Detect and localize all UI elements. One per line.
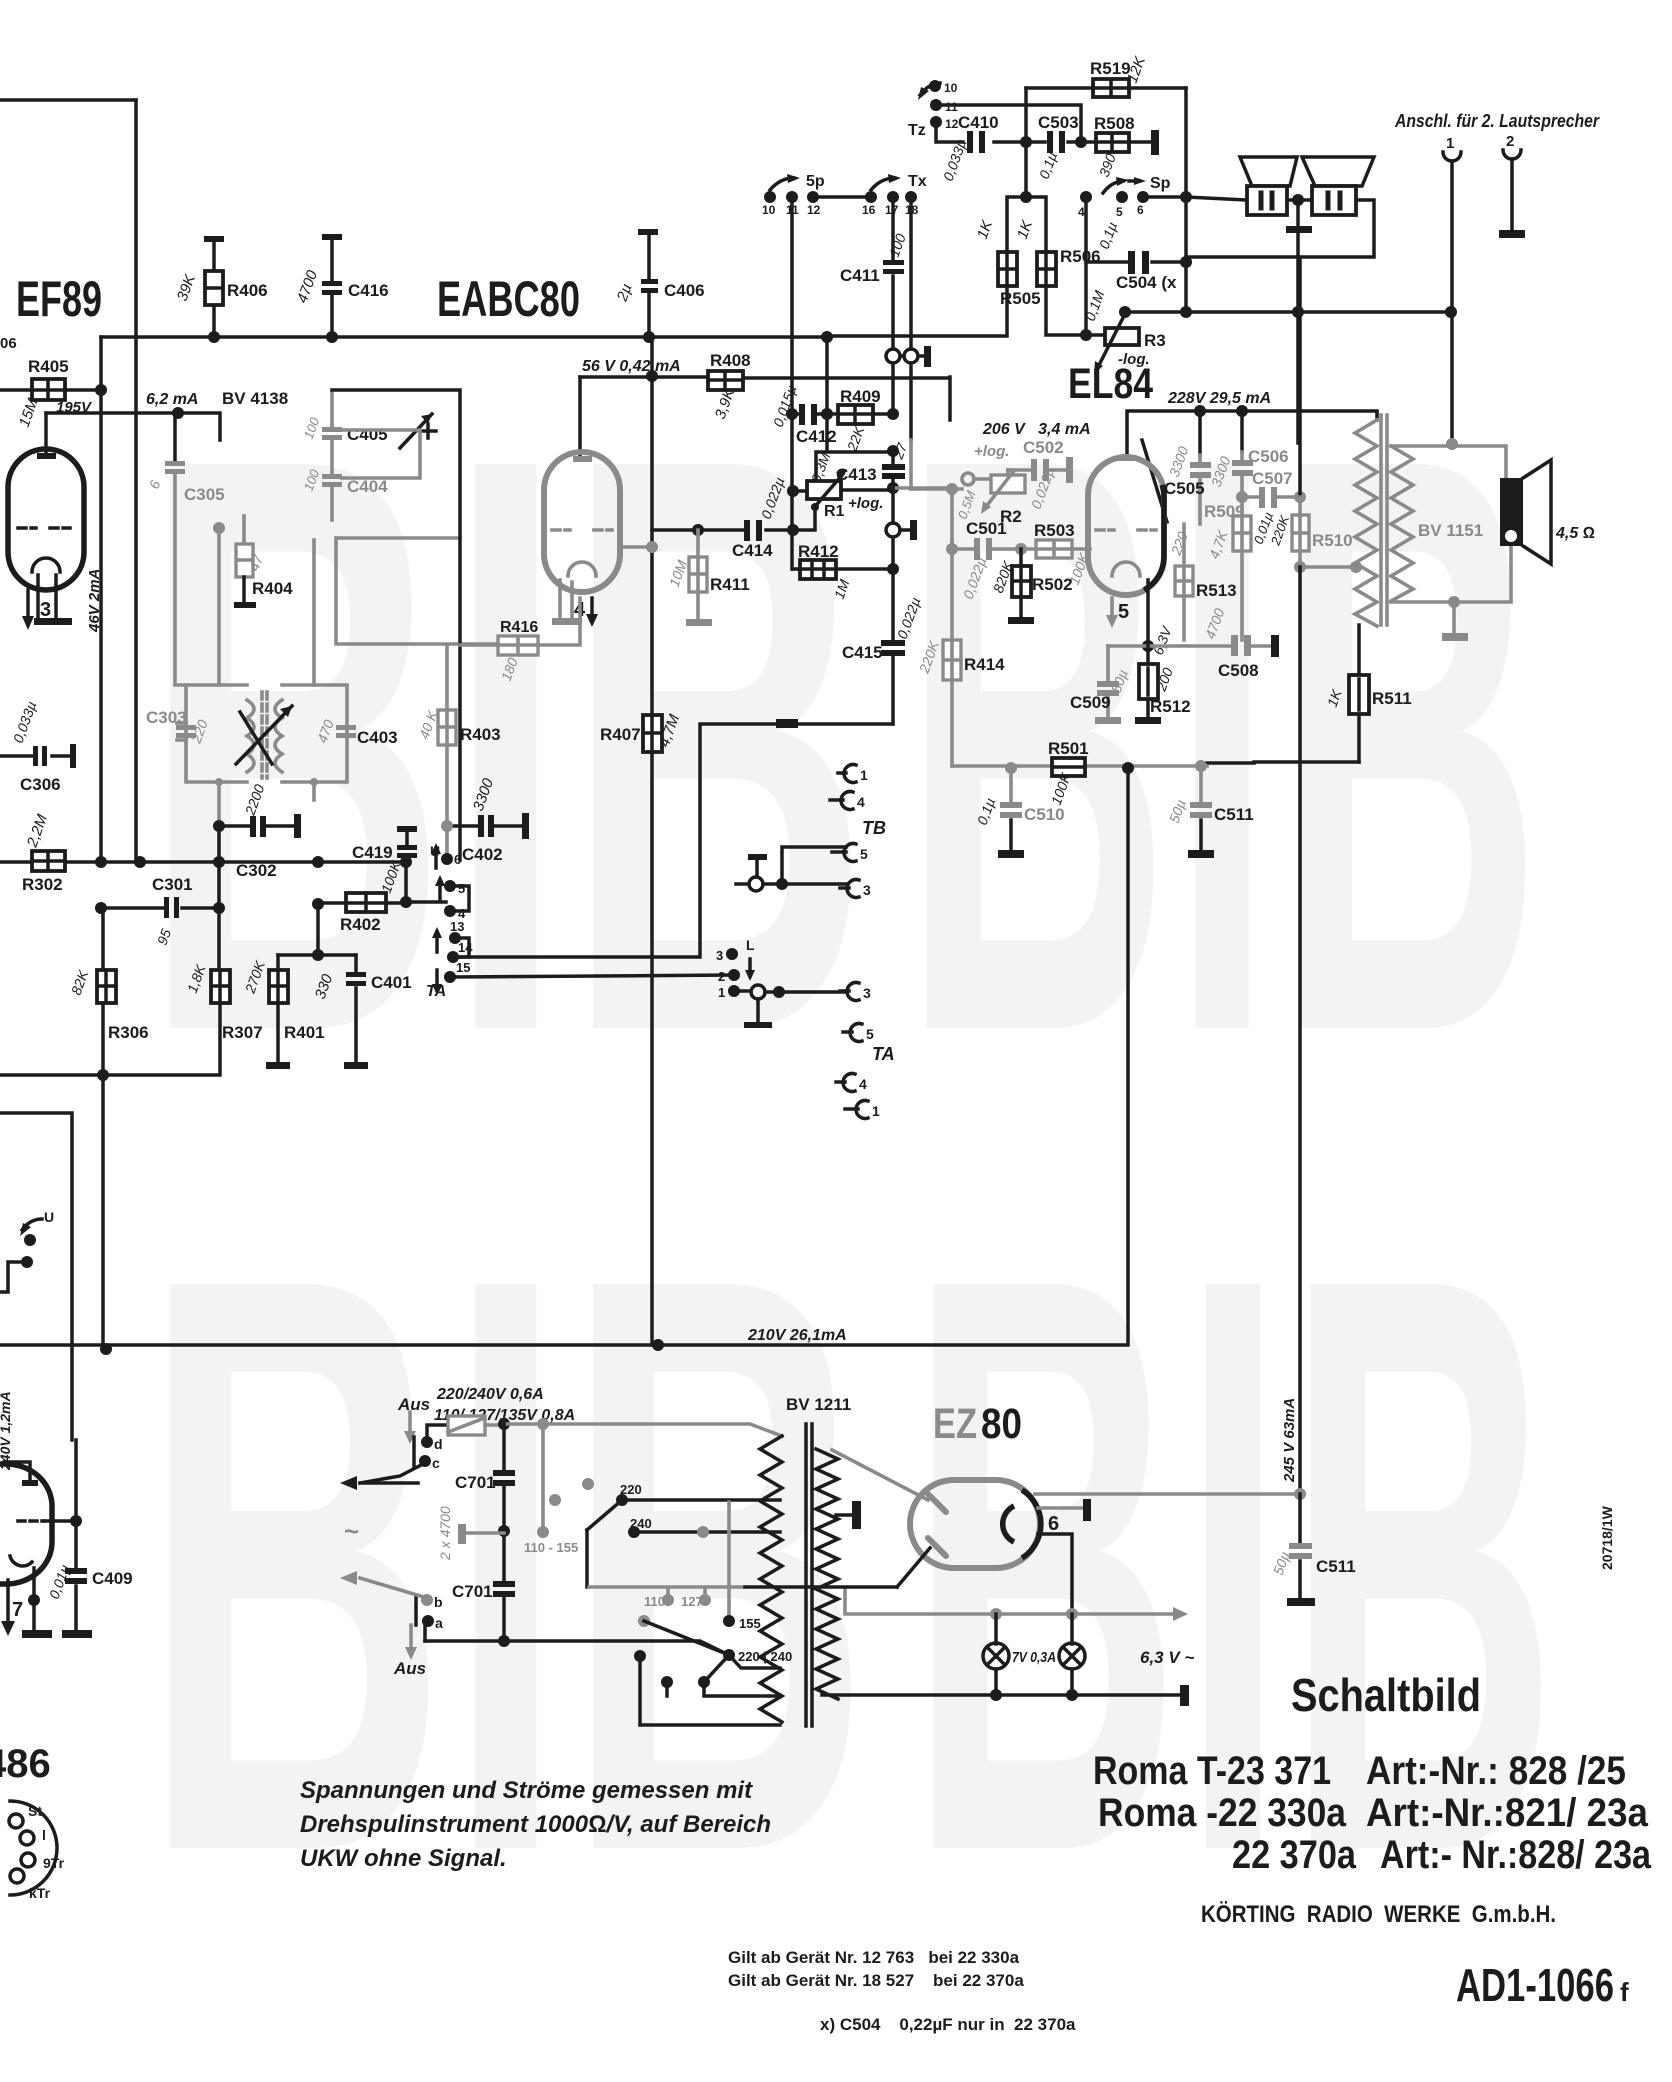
- transformer BV1151 primary winding: [1355, 420, 1377, 626]
- ground EABC80 cathode gray: [552, 618, 582, 625]
- svg-text:80: 80: [981, 1400, 1022, 1448]
- capacitor C503: [1026, 140, 1081, 144]
- svg-text:BIB: BIB: [142, 286, 870, 1202]
- svg-text:5: 5: [1116, 205, 1123, 219]
- svg-text:15: 15: [456, 960, 470, 975]
- svg-text:R302: R302: [22, 875, 63, 894]
- terminal C4 TA: [836, 1080, 845, 1084]
- svg-text:R307: R307: [222, 1023, 263, 1042]
- svg-text:C701: C701: [452, 1582, 493, 1601]
- svg-text:110 - 155: 110 - 155: [524, 1540, 578, 1555]
- wire bus drop to R405 node: [99, 337, 103, 390]
- switch mains b/a: [421, 1594, 433, 1606]
- node 11: [786, 191, 798, 203]
- svg-text:C503: C503: [1038, 113, 1079, 132]
- potentiometer R2 gray: [962, 473, 974, 485]
- svg-text:R509: R509: [1204, 502, 1245, 521]
- svg-text:EL84: EL84: [1068, 360, 1153, 408]
- node 10: [764, 191, 776, 203]
- wire C405 to trimmer gray: [342, 430, 420, 478]
- svg-text:EABC80: EABC80: [437, 271, 580, 327]
- node 12: [807, 191, 819, 203]
- capacitor C504: [1086, 260, 1186, 264]
- svg-text:C502: C502: [1023, 438, 1064, 457]
- svg-text:Roma -22 330a: Roma -22 330a: [1098, 1791, 1347, 1835]
- capacitor C406: [638, 229, 658, 235]
- svg-text:Gilt ab Gerät Nr. 12 763 bei: Gilt ab Gerät Nr. 12 763 bei 22 330a: [728, 1948, 1020, 1967]
- EZ80 heater stub right: [1038, 1506, 1083, 1510]
- svg-text:C510: C510: [1024, 805, 1065, 824]
- svg-text:3: 3: [863, 985, 871, 1001]
- svg-text:486: 486: [0, 1742, 51, 1786]
- resistor R306: [101, 908, 105, 970]
- svg-text:6,2 mA: 6,2 mA: [146, 391, 198, 408]
- capacitor C403 gray: [336, 725, 356, 730]
- svg-text:1: 1: [860, 767, 868, 783]
- svg-text:6: 6: [1137, 203, 1144, 217]
- svg-text:C501: C501: [966, 519, 1007, 538]
- wire TB C2 row: [798, 722, 893, 726]
- selector tap 110: [662, 1594, 674, 1606]
- svg-text:12: 12: [807, 203, 821, 217]
- terminator 6,3V bus: [1180, 1685, 1189, 1706]
- ground C511 upper: [1188, 850, 1214, 858]
- svg-text:14: 14: [458, 940, 473, 955]
- svg-text:C511: C511: [1316, 1557, 1356, 1576]
- resistor R402: [346, 893, 386, 912]
- capacitor C409: [74, 1440, 78, 1630]
- svg-text:C411: C411: [840, 266, 880, 285]
- IF transformer BV4138 left loop: [186, 685, 247, 782]
- svg-text:22 370a: 22 370a: [1232, 1833, 1357, 1877]
- node R405/bus: [95, 384, 107, 396]
- svg-text:l: l: [42, 1827, 46, 1843]
- wire tap rows to winding: [667, 1682, 780, 1696]
- resistor R412: [800, 560, 836, 579]
- svg-text:C509: C509: [1070, 693, 1111, 712]
- speaker internal left: [1240, 157, 1297, 186]
- terminal C5 TA: [843, 1030, 852, 1034]
- IF transformer BV4138 right loop: [282, 685, 347, 782]
- resistor R506: [1037, 252, 1056, 286]
- capacitor C302: [219, 824, 295, 828]
- wire contact 15 to L2: [450, 975, 734, 977]
- resistor R509 gray: [1233, 516, 1251, 551]
- wire TB feed row y884: [736, 882, 846, 886]
- svg-text:7: 7: [12, 1599, 23, 1621]
- svg-text:Art:-Nr.: 828 /25: Art:-Nr.: 828 /25: [1366, 1749, 1626, 1793]
- svg-text:R412: R412: [798, 542, 839, 561]
- resistor R411 gray: [696, 530, 700, 619]
- ground tube7: [22, 1630, 52, 1638]
- svg-text:13: 13: [450, 919, 464, 934]
- wire EZ80 cathode B+: [1035, 1492, 1300, 1496]
- switch contacts 13/14/15 TA: [435, 932, 439, 952]
- capacitor C501 gray: [946, 543, 958, 555]
- wire selector 110-155 gray: [541, 1424, 545, 1532]
- wire b to AC arrow gray: [360, 1578, 427, 1598]
- svg-text:240V 1,2mA: 240V 1,2mA: [0, 1391, 13, 1471]
- resistor R511: [1357, 625, 1361, 762]
- svg-text:C406: C406: [664, 281, 705, 300]
- svg-text:~: ~: [344, 1516, 359, 1546]
- svg-text:4: 4: [857, 794, 865, 810]
- svg-text:5: 5: [860, 846, 868, 862]
- ground R411 gray: [686, 619, 712, 626]
- svg-text:56 V 0,42 mA: 56 V 0,42 mA: [582, 358, 681, 375]
- svg-text:C511: C511: [1214, 805, 1254, 824]
- feedthrough L1: [751, 985, 765, 999]
- wire node11 vertical: [790, 197, 794, 414]
- capacitor C405 gray: [330, 392, 334, 474]
- terminator above feedthrough: [748, 854, 767, 860]
- wire secondary top gray: [1391, 446, 1506, 478]
- terminal C5 TB: [832, 850, 846, 854]
- svg-text:KÖRTING RADIO WERKE G.m.b.H: KÖRTING RADIO WERKE G.m.b.H.: [1201, 1901, 1556, 1928]
- capacitor C414: [744, 520, 750, 541]
- svg-text:b: b: [434, 1594, 443, 1610]
- svg-text:4: 4: [1078, 205, 1085, 219]
- selector gray feed row: [589, 1587, 745, 1596]
- svg-text:R501: R501: [1048, 739, 1089, 758]
- wire R510 to primary gray: [1300, 551, 1356, 567]
- ground speakers: [1296, 200, 1300, 443]
- svg-text:11: 11: [945, 100, 958, 114]
- wire node4 down: [1084, 197, 1088, 335]
- tube EL84: [1088, 457, 1164, 595]
- ground R401: [276, 1003, 280, 1062]
- wire right speaker loop: [1186, 200, 1374, 257]
- terminator C508: [1271, 635, 1279, 657]
- resistor R510: [1298, 257, 1302, 497]
- ground C509 gray: [1095, 717, 1121, 724]
- svg-text:C506: C506: [1248, 447, 1289, 466]
- svg-text:16: 16: [862, 203, 876, 217]
- svg-text:R407: R407: [600, 725, 641, 744]
- wire C302 to grid bus: [217, 826, 221, 970]
- svg-text:5p: 5p: [806, 173, 825, 190]
- coil BV4138 primary: [247, 700, 254, 772]
- transformer BV1151 secondary winding: [1391, 446, 1413, 601]
- terminator of feedthroughs: [900, 354, 924, 358]
- svg-text:12: 12: [945, 117, 959, 131]
- svg-text:1: 1: [718, 985, 725, 1000]
- capacitor C508 gray: [1231, 635, 1238, 656]
- wire EABC80 grid cap: [578, 377, 582, 455]
- svg-text:C419: C419: [352, 843, 393, 862]
- wire y847 branch: [782, 847, 846, 884]
- svg-text:C416: C416: [348, 281, 389, 300]
- resistor R307: [211, 970, 230, 1003]
- wire EZ80 lower diagonal: [897, 1548, 930, 1587]
- svg-text:1: 1: [872, 1103, 880, 1119]
- svg-text:R402: R402: [340, 915, 381, 934]
- wire R505 bottom to bus: [828, 286, 1007, 336]
- svg-text:220/240V 0,6A: 220/240V 0,6A: [436, 1386, 544, 1403]
- svg-text:C301: C301: [152, 875, 193, 894]
- svg-text:R404: R404: [252, 579, 293, 598]
- svg-text:R512: R512: [1150, 697, 1191, 716]
- svg-text:+log.: +log.: [848, 495, 883, 512]
- svg-text:R414: R414: [964, 655, 1005, 674]
- node 16: [865, 191, 877, 203]
- capacitor C507 gray: [1236, 491, 1248, 503]
- switch contacts 5/4: [438, 880, 442, 900]
- svg-text:R508: R508: [1094, 114, 1135, 133]
- svg-text:3: 3: [863, 882, 871, 898]
- svg-text:EZ: EZ: [933, 1400, 977, 1448]
- switch U mid-left: [22, 1219, 42, 1230]
- wire 195V anode row: [46, 413, 220, 440]
- wire left box upper: [0, 1113, 72, 1440]
- feedthrough x893 lower: [886, 523, 900, 537]
- wire mains to transformer gray: [504, 1424, 782, 1436]
- wire EZ80 anode diagonal gray: [832, 1450, 928, 1500]
- wire node12 to Tz row: [813, 195, 871, 199]
- svg-text:7V 0,3A: 7V 0,3A: [1012, 1649, 1056, 1666]
- svg-text:C507: C507: [1252, 469, 1293, 488]
- svg-text:20718/1W: 20718/1W: [1599, 1505, 1615, 1570]
- ground C401: [344, 1062, 368, 1069]
- svg-text:U: U: [44, 1209, 54, 1225]
- switch Tz arrow: [871, 178, 895, 190]
- resistor R512: [1146, 646, 1150, 717]
- svg-text:TB: TB: [862, 818, 886, 838]
- svg-text:C508: C508: [1218, 661, 1259, 680]
- svg-text:Tz: Tz: [908, 122, 926, 139]
- svg-text:228V 29,5 mA: 228V 29,5 mA: [1167, 390, 1271, 407]
- wire B+ vertical to 210V rail: [103, 768, 1128, 1345]
- ground EF89 cathode: [34, 618, 72, 625]
- wire secondary bottom gray: [1391, 546, 1511, 602]
- capacitor C410: [936, 122, 1026, 142]
- svg-text:+log.: +log.: [974, 443, 1009, 460]
- resistor R505: [998, 252, 1017, 286]
- resistor R401: [276, 955, 280, 970]
- svg-text:127: 127: [681, 1594, 703, 1609]
- wire R401/C401 loop: [278, 904, 356, 955]
- resistor R407: [643, 715, 662, 752]
- svg-text:C404: C404: [347, 477, 388, 496]
- terminal C3 TA: [840, 989, 849, 993]
- svg-text:R403: R403: [460, 725, 501, 744]
- ground R512: [1135, 717, 1161, 724]
- capacitor C306: [0, 754, 72, 758]
- tube EF89 triode section: [8, 449, 84, 590]
- node 6,2mA: [172, 407, 184, 419]
- wire anode vertical EABC80 to 210V: [650, 337, 654, 1345]
- lamp 2: [1070, 1614, 1074, 1644]
- svg-text:2: 2: [718, 969, 725, 984]
- resistor R519: [1026, 86, 1186, 90]
- wire to 210V rail: [101, 1075, 105, 1349]
- capacitor C305 gray: [173, 413, 177, 461]
- terminator R508: [1151, 130, 1159, 155]
- svg-text:6,3 V ~: 6,3 V ~: [1140, 1648, 1194, 1667]
- capacitor C511 upper: [1195, 760, 1207, 772]
- svg-text:C409: C409: [92, 1569, 133, 1588]
- svg-text:5: 5: [1118, 601, 1129, 623]
- node 17: [887, 191, 899, 203]
- resistor R502: [1019, 549, 1023, 617]
- wire c to AC arrow: [360, 1463, 425, 1483]
- svg-text:3: 3: [716, 948, 723, 963]
- resistor R414 gray: [950, 489, 954, 766]
- svg-text:R503: R503: [1034, 521, 1075, 540]
- wire bus end vertical x827: [825, 337, 829, 451]
- switch Tz2 contacts 10/11/12: [920, 83, 940, 95]
- wire y530 row: [652, 528, 793, 532]
- wire R519 right leg: [1184, 88, 1188, 312]
- svg-text:R409: R409: [840, 387, 881, 406]
- svg-text:R416: R416: [500, 619, 538, 636]
- capacitor C415: [891, 569, 895, 724]
- svg-text:1: 1: [1446, 135, 1454, 152]
- wire BV4138 bottoms gray: [215, 778, 223, 786]
- wire R1 top row: [816, 452, 893, 481]
- capacitor C401: [354, 955, 358, 1062]
- resistor R508: [1096, 133, 1129, 152]
- wire R403 bottom to contact6: [445, 826, 449, 852]
- ground R404: [234, 602, 256, 608]
- svg-text:C401: C401: [371, 973, 412, 992]
- wire EZ80 pin6 branch: [1038, 1534, 1072, 1614]
- capacitor C701 upper: [502, 1424, 506, 1531]
- capacitor C511 lower: [1298, 1494, 1302, 1598]
- terminal C3 TB: [840, 886, 849, 890]
- wire between speakers: [1287, 198, 1312, 202]
- wire node11 C412 row: [786, 408, 798, 420]
- capacitor C509 gray: [1106, 646, 1110, 717]
- svg-text:245 V 63mA: 245 V 63mA: [1281, 1398, 1298, 1483]
- label Aus bottom: [409, 1625, 413, 1648]
- svg-text:5: 5: [866, 1026, 874, 1042]
- resistor R403 gray: [445, 645, 449, 826]
- wire BV4138 tops gray: [219, 528, 314, 685]
- capacitor C411: [883, 260, 904, 265]
- resistor R404 gray body: [242, 516, 246, 544]
- svg-text:R1: R1: [824, 503, 845, 520]
- svg-text:R510: R510: [1312, 531, 1353, 550]
- wire node17 vertical: [891, 197, 895, 349]
- selector dot spare: [582, 1478, 594, 1490]
- capacitor C505 gray: [1198, 411, 1202, 455]
- terminal C4 TB: [830, 798, 843, 802]
- wire EABC80 plate to x652 gray: [620, 545, 652, 549]
- svg-text:Tx: Tx: [908, 173, 927, 190]
- svg-text:c: c: [432, 1455, 440, 1471]
- wire R506 bottom: [1046, 286, 1086, 335]
- wire EZ80 anode2 terminator: [836, 1513, 852, 1517]
- capacitor C510: [1009, 768, 1013, 802]
- svg-text:Anschl. für 2. Lautsprecher: Anschl. für 2. Lautsprecher: [1394, 111, 1600, 131]
- wire node to speaker: [1186, 197, 1247, 200]
- svg-text:110: 110: [644, 1594, 665, 1609]
- wire mains bottom black: [745, 1585, 897, 1589]
- trimmer arrows BV4138: [236, 706, 292, 764]
- transformer BV1151 core: [1381, 415, 1387, 625]
- wire 587 drop: [585, 1530, 589, 1587]
- core BV4138 dashed: [262, 692, 267, 778]
- wire R510 down to B+: [1298, 567, 1302, 1495]
- wire L1 through feedthrough: [734, 991, 846, 992]
- arrow EL84 pin gray: [1110, 598, 1114, 616]
- wire terminal1 down to transformer: [1450, 312, 1454, 444]
- ground C510: [998, 850, 1024, 858]
- svg-text:f: f: [1620, 1977, 1629, 2007]
- svg-text:AD1-1066: AD1-1066: [1456, 1959, 1614, 2011]
- ground R502: [1008, 617, 1034, 624]
- leader line 206V: [1142, 440, 1167, 522]
- resistor R406: [204, 236, 224, 242]
- svg-text:10: 10: [762, 203, 776, 217]
- resistor R513 gray: [1182, 524, 1186, 640]
- svg-text:Schaltbild: Schaltbild: [1291, 1669, 1481, 1721]
- switch L contacts 3/2/1: [726, 948, 738, 960]
- wire R2 row gray: [911, 487, 962, 491]
- svg-text:5: 5: [458, 881, 465, 896]
- svg-text:R513: R513: [1196, 581, 1237, 600]
- svg-text:C414: C414: [732, 541, 773, 560]
- wire contact 14 to C2 TB column: [453, 724, 776, 957]
- wire left vertical A: [99, 390, 103, 862]
- wire bus2 corner to R402: [404, 862, 408, 902]
- wire node11b to C503: [936, 105, 1081, 142]
- svg-text:Aus: Aus: [393, 1659, 426, 1678]
- svg-text:TA: TA: [872, 1044, 895, 1064]
- svg-text:155: 155: [739, 1616, 761, 1631]
- node 18: [905, 191, 917, 203]
- switch 5p arrow: [770, 178, 794, 190]
- speaker output: [1500, 478, 1523, 546]
- wire node11 down to C414/R412: [790, 414, 794, 569]
- svg-text:R401: R401: [284, 1023, 325, 1042]
- svg-text:Art:-Nr.:821/ 23a: Art:-Nr.:821/ 23a: [1366, 1791, 1649, 1835]
- resistor R416 gray: [460, 598, 580, 645]
- EZ80 plate ticks gray: [928, 1494, 946, 1556]
- svg-text:BV 1151: BV 1151: [1418, 521, 1483, 540]
- selector rotor: [638, 1615, 650, 1627]
- resistor R302: [0, 860, 101, 864]
- trimmer arrow C404: [400, 414, 432, 448]
- transformer BV1211 core: [806, 1424, 812, 1726]
- svg-text:R511: R511: [1372, 689, 1412, 708]
- svg-text:C302: C302: [236, 861, 277, 880]
- terminator 2x4700 gray: [458, 1524, 466, 1544]
- svg-text:Art:- Nr.:828/ 23a: Art:- Nr.:828/ 23a: [1380, 1833, 1652, 1877]
- svg-text:R411: R411: [710, 575, 750, 594]
- wire R519 left leg: [1024, 88, 1028, 197]
- lamp 1: [994, 1614, 998, 1644]
- resistor R409: [838, 405, 873, 424]
- svg-text:Gilt ab Gerät Nr. 18 527 be: Gilt ab Gerät Nr. 18 527 bei 22 370a: [728, 1971, 1024, 1990]
- svg-text:C701: C701: [455, 1473, 496, 1492]
- svg-text:C410: C410: [958, 113, 999, 132]
- capacitor C419: [397, 826, 417, 832]
- capacitor C404 gray: [330, 488, 334, 520]
- wire black top of C405: [332, 390, 460, 860]
- svg-text:4,5 Ω: 4,5 Ω: [1555, 525, 1595, 542]
- wire 6,3V bus: [822, 1693, 1183, 1697]
- svg-text:R3: R3: [1144, 331, 1166, 350]
- svg-text:2: 2: [1506, 133, 1514, 150]
- potentiometer R3: [1086, 333, 1105, 337]
- wire output row y312: [1125, 310, 1451, 314]
- arrow EABC80 pin: [590, 598, 594, 616]
- svg-text:R408: R408: [710, 351, 751, 370]
- svg-text:a: a: [435, 1615, 443, 1631]
- wire grid gray to R414: [893, 486, 952, 490]
